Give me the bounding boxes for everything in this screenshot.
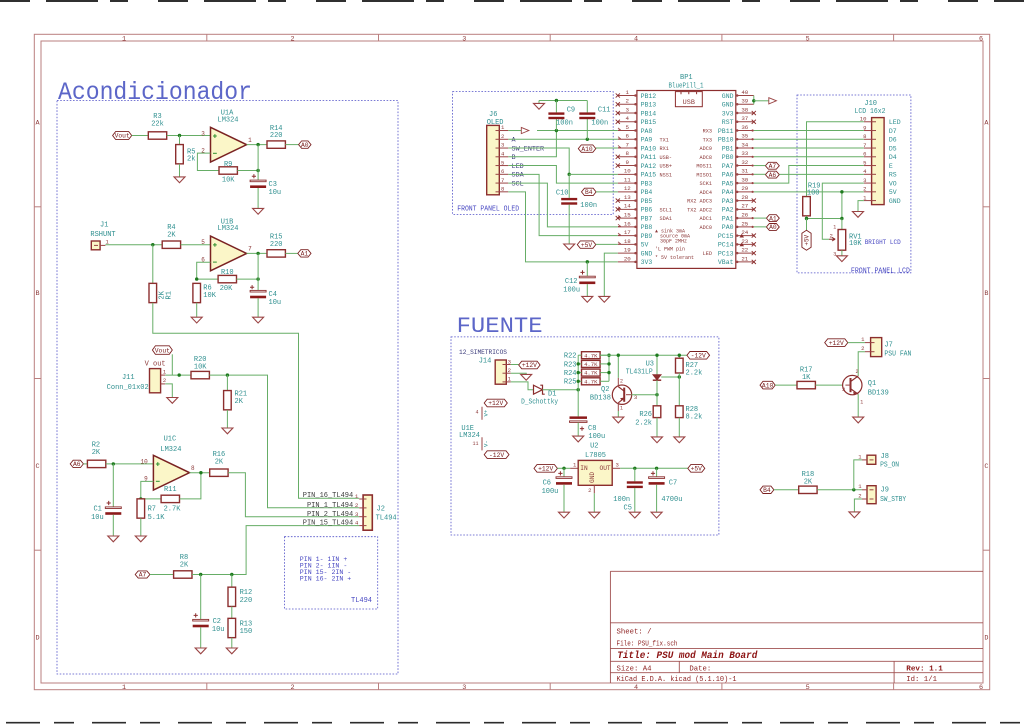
svg-text:PA0: PA0	[722, 224, 734, 231]
U2 pin1 stub	[570, 467, 578, 469]
resistor R11	[161, 495, 179, 502]
connector J10 LCD	[872, 118, 885, 205]
svg-text:4: 4	[355, 520, 359, 527]
svg-text:7: 7	[501, 177, 504, 184]
BP1 pin 40 (GND) stub	[736, 95, 754, 97]
FRONT PANEL OLED dashed box	[453, 92, 614, 215]
wire feedback node to C3	[257, 171, 259, 181]
BP1 pin 19 (GND) stub	[618, 252, 637, 254]
svg-text:2: 2	[163, 377, 166, 384]
J6 pin 6 stub	[499, 173, 508, 175]
J6 pin 5 stub	[499, 165, 508, 167]
capacitor C3	[250, 180, 266, 182]
svg-text:12: 12	[624, 185, 631, 192]
svg-text:PC15: PC15	[718, 233, 734, 240]
svg-text:16: 16	[624, 220, 631, 227]
node junction C9 top	[555, 99, 558, 102]
svg-text:3: 3	[462, 684, 466, 692]
svg-text:9: 9	[626, 159, 630, 166]
svg-text:PB5: PB5	[641, 198, 653, 205]
svg-text:PA8: PA8	[641, 128, 653, 135]
potentiometer RV1	[838, 230, 846, 251]
svg-text:FRONT PANEL OLED: FRONT PANEL OLED	[457, 206, 519, 214]
svg-text:20: 20	[624, 255, 631, 262]
op-amp U1A	[211, 127, 247, 162]
screen bottom dashed line	[6, 722, 1024, 724]
svg-text:5V: 5V	[641, 242, 649, 249]
node junction RV1 top	[840, 217, 843, 220]
wire R3 to U1A pin3	[167, 135, 211, 137]
node junction J11/Vout/R20	[178, 373, 181, 376]
svg-text:10u: 10u	[212, 626, 225, 634]
svg-text:3V3: 3V3	[722, 110, 734, 117]
svg-text:2K: 2K	[167, 231, 176, 239]
svg-text:2K: 2K	[235, 398, 244, 406]
svg-text:6: 6	[626, 133, 630, 140]
svg-text:PB11: PB11	[718, 128, 734, 135]
svg-text:B: B	[36, 290, 40, 298]
svg-text:2.2k: 2.2k	[635, 420, 652, 428]
svg-text:26: 26	[741, 211, 748, 218]
svg-text:A10: A10	[581, 146, 593, 153]
node junction R20/R21	[226, 373, 229, 376]
node junction Q2 base/U3/R26	[655, 393, 658, 396]
resistor R7	[137, 499, 145, 518]
no-connect cross pin 2	[616, 102, 620, 106]
wire J6 pin1 to arrow	[508, 130, 521, 132]
svg-text:PB13: PB13	[641, 102, 657, 109]
svg-text:2: 2	[501, 133, 504, 140]
capacitor C12 polarity mark	[580, 270, 584, 274]
svg-text:PIN_16_TL494: PIN_16_TL494	[303, 492, 353, 500]
capacitor C1	[105, 507, 121, 509]
wire A10 to R17	[775, 384, 797, 386]
svg-text:PA10: PA10	[641, 145, 657, 152]
node junction SW_ENTER/PA15/C10	[568, 173, 571, 176]
wire node up to J8	[854, 460, 862, 490]
wire R17 to Q1 base	[815, 384, 845, 386]
resistor R10	[218, 275, 236, 282]
svg-text:+12V: +12V	[488, 400, 503, 407]
svg-text:A6: A6	[769, 172, 777, 179]
shunt regulator U3 TL431LP	[653, 375, 661, 380]
svg-text:1: 1	[626, 89, 630, 96]
svg-text:18: 18	[624, 238, 631, 245]
svg-text:D_Schottky: D_Schottky	[521, 399, 558, 407]
BP1 pin 31 (PA6) stub	[736, 173, 754, 175]
wire R15 to A1 label	[285, 252, 297, 254]
svg-text:+12V: +12V	[829, 340, 844, 347]
wire R1 bottom to TL494 PIN_16 run	[153, 303, 359, 499]
svg-text:5: 5	[806, 35, 810, 43]
svg-text:2.2k: 2.2k	[686, 370, 703, 378]
J10 pin 7 stub	[864, 147, 872, 149]
svg-text:Vout: Vout	[115, 133, 130, 140]
wire R13 to ground	[231, 638, 233, 648]
svg-text:25: 25	[741, 220, 748, 227]
resistor R8	[174, 571, 192, 578]
no-connect cross pin 27	[752, 207, 756, 211]
svg-text:PA7: PA7	[722, 163, 734, 170]
svg-text:Vout: Vout	[155, 347, 170, 354]
wire R22 leads	[578, 354, 581, 356]
svg-text:6: 6	[979, 35, 983, 43]
capacitor C4 polarity mark	[250, 285, 254, 289]
BP1 pin 10 (PA15) stub	[618, 173, 637, 175]
wire R7 to ground	[140, 518, 142, 536]
ground under R5	[174, 177, 185, 183]
BP1 pin 35 (PB10) stub	[736, 138, 754, 140]
transistor Q2 BD138	[612, 385, 631, 404]
wire GND to unlabeled arrow	[754, 100, 769, 102]
node junction R9/C3/output	[256, 169, 259, 172]
wire Q2 collector to rail	[617, 355, 619, 378]
PC14 sink triangle mark	[740, 243, 745, 247]
BP1 pin 30 (PA5) stub	[736, 182, 754, 184]
svg-text:FRONT PANEL LCD: FRONT PANEL LCD	[851, 267, 910, 275]
BP1 pin 32 (PA7) stub	[736, 165, 754, 167]
capacitor C1 polarity mark	[107, 501, 111, 505]
svg-text:20K: 20K	[220, 285, 233, 293]
svg-text:GND: GND	[722, 102, 734, 109]
svg-text:30pF 2MHz: 30pF 2MHz	[660, 239, 687, 245]
resistor R5	[176, 145, 184, 164]
wire output node down to feedback node	[257, 145, 259, 171]
node junction R7/R11/feedback	[139, 497, 142, 500]
resistor R9	[219, 167, 237, 174]
svg-text:BP1: BP1	[680, 74, 693, 82]
svg-text:PA6: PA6	[722, 172, 734, 179]
wire +5V label stem	[806, 219, 808, 231]
wire R19 bottom to +5V rail	[807, 216, 842, 219]
node junction left rail row 3	[577, 380, 580, 383]
J8 pin1 stub	[862, 459, 867, 461]
wire R12 top lead	[231, 575, 233, 588]
wire PA4 to LCD 5V with drop to R19 rail	[754, 191, 864, 193]
svg-text:Id: 1/1: Id: 1/1	[906, 676, 937, 684]
svg-text:2: 2	[508, 367, 511, 374]
C8 polarity mark	[580, 427, 584, 431]
node junction C9/PA8	[555, 129, 558, 132]
svg-text:A7: A7	[769, 163, 777, 170]
ground under C3	[253, 208, 264, 214]
svg-text:MISO1: MISO1	[696, 172, 712, 178]
ground under C7	[651, 512, 662, 518]
svg-text:A6: A6	[73, 461, 81, 468]
C7 polarity mark	[651, 471, 655, 475]
svg-text:C1: C1	[93, 506, 101, 514]
resistor R16	[210, 469, 228, 476]
svg-text:KiCad E.D.A. kicad (5.1.10)-1: KiCad E.D.A. kicad (5.1.10)-1	[617, 676, 738, 684]
svg-text:-12V: -12V	[489, 452, 504, 459]
wire R25 leads	[578, 380, 581, 382]
svg-text:PB0: PB0	[722, 154, 734, 161]
wire C7 to ground	[656, 485, 658, 513]
svg-text:J14: J14	[479, 357, 492, 365]
BP1 pin 6 (PA9) stub	[618, 138, 637, 140]
svg-text:C9: C9	[567, 107, 575, 115]
svg-text:FUENTE: FUENTE	[457, 313, 543, 339]
wire R20 to R21 node and TL494 PIN_1 run	[209, 375, 359, 508]
wire A7 to R8	[150, 574, 174, 576]
no-connect cross pin 14	[616, 207, 620, 211]
svg-text:RX1: RX1	[660, 146, 669, 152]
wire C10 stem	[568, 174, 570, 198]
capacitor C11	[579, 112, 595, 114]
node junction right rail row 2	[607, 371, 610, 374]
svg-text:10: 10	[624, 168, 631, 175]
svg-text:R9: R9	[224, 161, 232, 169]
no-connect cross pin 15	[616, 216, 620, 220]
resistor R13	[228, 618, 236, 637]
svg-text:3: 3	[616, 462, 619, 469]
wire R26 to ground	[656, 418, 658, 437]
svg-text:R23: R23	[564, 361, 577, 369]
svg-text:30: 30	[741, 176, 748, 183]
node junction R3/R5	[178, 134, 181, 137]
Q1 base stub	[845, 384, 850, 386]
svg-text:PB12: PB12	[641, 93, 657, 100]
svg-text:TL431LP: TL431LP	[626, 368, 653, 376]
svg-text:IN: IN	[580, 465, 588, 472]
wire U1B pin6 feedback	[197, 262, 218, 279]
svg-text:LED: LED	[889, 119, 901, 126]
svg-text:2K: 2K	[215, 458, 224, 466]
svg-text:D: D	[36, 635, 40, 643]
capacitor C6	[556, 477, 572, 479]
no-connect cross pin 13	[616, 198, 620, 202]
BP1 pin 9 (PA12) stub	[618, 165, 637, 167]
svg-text:TX2 ADC2: TX2 ADC2	[687, 207, 712, 213]
svg-text:38: 38	[741, 106, 748, 113]
resistor R15	[267, 250, 285, 257]
svg-text:1: 1	[355, 493, 359, 500]
svg-text:C6: C6	[543, 479, 551, 487]
J10 pin 8 stub	[864, 138, 872, 140]
svg-text:PB15: PB15	[641, 119, 657, 126]
ground under J9	[849, 512, 860, 518]
svg-text:GND: GND	[889, 198, 901, 205]
U1E V- pin	[481, 437, 483, 450]
ground under R21	[222, 428, 233, 434]
wire LCD VO to RV1 wiper	[822, 183, 864, 239]
wire R9 to output node	[237, 170, 258, 172]
wire U3 cathode down to base node and R26	[656, 380, 658, 406]
svg-text:D6: D6	[889, 137, 897, 144]
svg-text:BRIGHT LCD: BRIGHT LCD	[865, 239, 901, 247]
svg-text:-12V: -12V	[691, 353, 706, 360]
svg-text:10u: 10u	[269, 189, 282, 197]
node junction right rail top	[607, 354, 610, 357]
svg-text:ADC0: ADC0	[700, 225, 712, 231]
BP1 pin 29 (PA4) stub	[736, 191, 754, 193]
svg-text:37: 37	[741, 115, 748, 122]
svg-text:R1: R1	[166, 291, 174, 299]
svg-text:TL494: TL494	[351, 597, 372, 605]
regulator U2 L7805 body	[578, 460, 612, 485]
wire R6 to ground	[196, 303, 198, 318]
resistor R17	[797, 381, 815, 388]
wire PB1 to LCD D5	[754, 147, 864, 149]
BP1 pin 33 (PB0) stub	[736, 156, 754, 158]
BP1 pin 13 (PB5) stub	[618, 200, 637, 202]
svg-text:LM324: LM324	[160, 446, 181, 454]
node junction J8/J9	[852, 488, 855, 491]
wire PB10 to LCD D6	[754, 138, 864, 140]
svg-text:ADC1: ADC1	[700, 216, 712, 222]
svg-text:BD139: BD139	[868, 389, 889, 397]
wire PA15 net to BP1 pin10	[569, 173, 618, 175]
svg-text:PA3: PA3	[722, 198, 734, 205]
wire Q1 collector to J7 pin2	[858, 352, 865, 376]
svg-text:100n: 100n	[613, 496, 630, 504]
wire A6 net to LCD RS	[779, 173, 864, 175]
svg-text:J6: J6	[489, 111, 497, 119]
wire LCD GND pin1 to ground	[858, 201, 864, 212]
BP1 pin 39 (GND) stub	[736, 103, 754, 105]
connector J7 PSU FAN	[871, 338, 882, 357]
wire PB0 to LCD D4	[754, 156, 864, 158]
svg-text:J2: J2	[377, 506, 385, 514]
wire SCL net: OLED pin7 to PB8	[508, 183, 618, 227]
capacitor C8 thick plate	[570, 416, 588, 419]
svg-text:100u: 100u	[542, 488, 559, 496]
node junction C11/PA9	[586, 138, 589, 141]
wire R21 to ground	[226, 410, 228, 428]
no-connect cross pin 9	[616, 163, 620, 167]
svg-text:LED: LED	[703, 251, 712, 257]
svg-text:SCL: SCL	[512, 180, 524, 188]
Acondicionador dashed box	[57, 101, 398, 675]
svg-text:B: B	[512, 154, 516, 162]
global label Vout (input to U1A)	[113, 132, 132, 140]
node junction left rail row 2	[577, 371, 580, 374]
svg-text:PIN_2_TL494: PIN_2_TL494	[307, 511, 353, 519]
svg-text:3: 3	[626, 106, 630, 113]
svg-text:3: 3	[634, 394, 637, 401]
svg-text:PA1: PA1	[722, 215, 734, 222]
wire ground stem C9 rail	[538, 101, 540, 104]
BP1 pin 38 (3V3) stub	[736, 112, 754, 114]
svg-text:8: 8	[626, 150, 630, 157]
no-connect cross pin 28	[752, 198, 756, 202]
svg-text:3V3: 3V3	[641, 259, 653, 266]
wire C11 leads	[586, 101, 588, 113]
wire R5 top	[179, 136, 181, 145]
frame row ticks	[34, 206, 41, 208]
svg-text:RST: RST	[722, 119, 734, 126]
wire U1C pin9 feedback	[141, 481, 161, 499]
svg-text:PB3: PB3	[641, 180, 653, 187]
Q2 collector pin stub	[617, 378, 619, 387]
node junction R10/C4/output	[256, 277, 259, 280]
svg-text:+5V: +5V	[581, 242, 593, 249]
node junction R12 top	[230, 573, 233, 576]
node junction Q2 collector rail	[617, 354, 620, 357]
svg-text:10K: 10K	[194, 364, 207, 372]
svg-text:12_SIMETRICOS: 12_SIMETRICOS	[459, 349, 507, 356]
unlabeled arrow flag at J6 pin1	[521, 127, 529, 133]
node junction U1C output	[199, 471, 202, 474]
J7 pin2 stub	[865, 351, 871, 353]
J11 pin 2 stub	[161, 383, 166, 385]
svg-text:J9: J9	[881, 487, 889, 495]
wire Q1 emitter to ground	[857, 394, 859, 417]
svg-text:PB6: PB6	[641, 207, 653, 214]
svg-text:2: 2	[626, 98, 630, 105]
wire D1 to R22-R25 left rail	[543, 389, 579, 391]
global label A0 (U1A output)	[299, 141, 311, 148]
BP1 pin 36 (PB11) stub	[736, 130, 754, 132]
wire R8 to C2 and R12 nodes, to TL494 PIN_15 run	[192, 526, 359, 575]
connector J14	[495, 360, 506, 384]
svg-text:28: 28	[741, 194, 748, 201]
wire U3 ref to R27/R28 node	[661, 376, 679, 378]
BP1 pin 26 (PA1) stub	[736, 217, 754, 219]
capacitor C7	[649, 477, 665, 479]
svg-text:+5V: +5V	[691, 466, 703, 473]
wire GND pins 40-39 tie	[753, 96, 755, 105]
svg-text:4: 4	[634, 684, 638, 692]
svg-text:3: 3	[508, 358, 511, 365]
svg-text:BluePill_1: BluePill_1	[669, 83, 704, 91]
wire R1 top	[152, 245, 154, 284]
svg-text:R24: R24	[564, 370, 577, 378]
svg-text:10K: 10K	[222, 177, 235, 185]
svg-text:NSS1: NSS1	[660, 172, 672, 178]
wire Q2 base to U3/R26 node	[631, 394, 657, 396]
global label -12V (U1E V-)	[484, 451, 509, 459]
svg-text:2: 2	[355, 502, 359, 509]
wire R10 to C4 node	[237, 278, 259, 280]
svg-text:5: 5	[806, 684, 810, 692]
svg-text:C8: C8	[588, 425, 596, 433]
node junction left rail row 1	[577, 362, 580, 365]
svg-text:5: 5	[626, 124, 630, 131]
global label A0 (PA0)	[766, 224, 779, 231]
node junction C6	[562, 467, 565, 470]
svg-text:22k: 22k	[151, 121, 164, 129]
svg-text:PB1: PB1	[722, 145, 734, 152]
J14 pin 1 stub	[506, 381, 511, 383]
global label A6 (PA6)	[765, 171, 779, 178]
svg-text:PA15: PA15	[641, 172, 657, 179]
svg-text:'L PWM pin: 'L PWM pin	[655, 247, 685, 253]
svg-text:PIN 16- 2IN +: PIN 16- 2IN +	[300, 575, 351, 582]
svg-text:ADC8: ADC8	[700, 155, 712, 161]
BP1 pin 22 (PC13) stub	[736, 252, 754, 254]
resistor R22	[582, 352, 601, 359]
wire A10 to BP1 pin7	[596, 147, 618, 149]
BP1 pin 27 (PA2) stub	[736, 208, 754, 210]
svg-text:1: 1	[860, 400, 863, 406]
wire Vout label down to J11 pin1 net	[171, 354, 173, 375]
svg-text:J11: J11	[122, 374, 135, 382]
capacitor C8 thin plate	[570, 421, 588, 423]
capacitor C2	[193, 619, 209, 621]
BP1 pin 2 (PB13) stub	[618, 103, 637, 105]
svg-text:15: 15	[624, 211, 631, 218]
svg-text:C4: C4	[269, 291, 277, 299]
node junction 3V3/C12	[586, 260, 589, 263]
svg-text:3: 3	[842, 386, 845, 393]
no-connect cross pin 24	[752, 234, 756, 238]
resistor R25	[582, 378, 601, 385]
J10 pin 10 stub	[864, 121, 872, 123]
wire B net: OLED pin4 to PA8 net	[508, 131, 556, 157]
svg-text:L7805: L7805	[585, 452, 606, 460]
wire U3 anode to rail	[656, 355, 658, 374]
